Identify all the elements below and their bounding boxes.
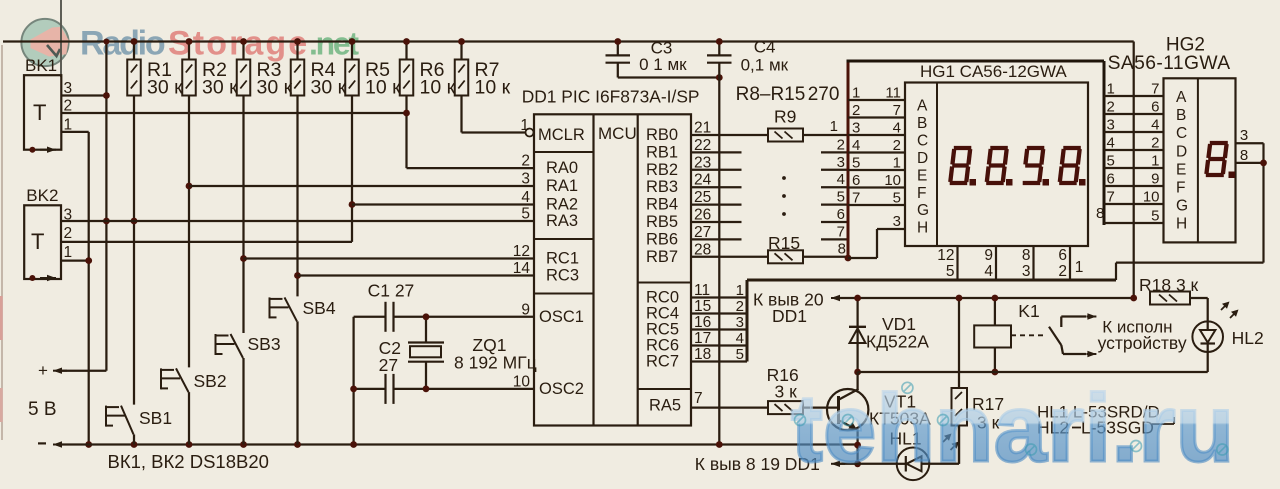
wire OSC1 row [354,316,386,318]
resistor R3 [242,42,244,60]
wire R6 to DQ1 node [405,96,407,169]
HG2 segment wire 1 pin 7 [1104,95,1164,97]
svg-text:MCLR: MCLR [538,126,585,144]
svg-text:OSC1: OSC1 [539,308,584,326]
HG2 segment wire 6 pin 9 [1104,185,1164,187]
svg-text:3: 3 [736,314,744,331]
wire SB4 to ground [296,321,298,444]
svg-text:B: B [1176,107,1186,124]
svg-text:9: 9 [984,247,993,264]
svg-text:0,1 мк: 0,1 мк [741,56,789,75]
wire RC row 5 [691,360,747,362]
wire RB5 stub [691,221,742,223]
wire RC row 1 [691,296,747,298]
wire OSC2 row [354,388,386,390]
svg-text:HG1 CA56-12GWA: HG1 CA56-12GWA [920,62,1067,81]
wire R7 to MCLR [460,96,462,133]
wire RB2 stub [691,169,742,171]
svg-text:1: 1 [736,282,744,299]
svg-text:7: 7 [1107,189,1115,206]
wire HL1 to R17 [958,426,960,464]
svg-text:A: A [917,98,928,115]
relay K1 dashed link [1011,334,1046,336]
svg-text:Radio: Radio [80,25,165,63]
wire collector rail [858,371,1208,373]
HL2 emission arrows [1221,303,1228,310]
svg-text:5: 5 [946,263,955,280]
svg-text:12: 12 [513,243,530,260]
svg-text:RB7: RB7 [646,248,678,266]
svg-text:DD1: DD1 [772,306,807,326]
wire RC3 row [298,274,535,276]
HG1 digit 1 [954,146,972,150]
svg-text:4: 4 [521,189,530,206]
resistor R2 [188,42,190,60]
svg-text:1: 1 [830,118,838,135]
svg-text:2: 2 [736,298,744,315]
wire +5 feeder vertical [105,42,107,371]
wire osc left vertical [352,317,354,445]
svg-text:3: 3 [64,80,73,97]
svg-text:RB5: RB5 [646,213,678,231]
HG2 segment wire 7 pin 10 [1104,203,1164,205]
capacitor C3 [617,42,619,56]
HG1 segment wire 3 pin 4 [848,134,905,136]
svg-text:14: 14 [513,260,531,277]
HG1 segment wire 8 pin 3 jog [848,257,877,259]
wire RB7 [691,256,768,258]
svg-text:8: 8 [1022,247,1031,264]
svg-text:2: 2 [64,225,73,242]
resistor R1 [133,42,135,60]
resistor R18 [1150,292,1190,305]
HG1 digit 4 [1063,146,1081,150]
button SB1 [105,406,107,427]
resistor R4 [296,42,298,60]
wire C3 to C4 bottom [618,76,720,78]
svg-text:RA0: RA0 [546,159,578,177]
HG2 segment wire 8 pin 5 [1104,222,1164,224]
logo horn shape [31,27,69,57]
LED HL1 [897,448,930,481]
svg-text:6: 6 [1058,247,1067,264]
BK2 pin 1 wire [61,259,89,261]
svg-text:30 к: 30 к [202,77,238,99]
svg-text:9: 9 [521,301,530,318]
svg-text:3: 3 [1240,127,1248,144]
svg-text:10: 10 [1143,189,1160,206]
button SB2 [160,368,162,389]
svg-text:2: 2 [521,153,530,170]
svg-text:1: 1 [520,117,529,134]
svg-text:12: 12 [937,247,954,264]
svg-text:4: 4 [736,330,744,347]
LED HL2 [1207,298,1209,321]
svg-text:1: 1 [1075,259,1084,276]
wire RA5 to R16 [691,406,768,408]
resistor R16 [768,401,803,414]
watermark mark 3 [938,415,949,426]
svg-text:1: 1 [893,155,901,172]
svg-text:2: 2 [64,98,73,115]
svg-text:27: 27 [379,355,398,375]
svg-text:RA3: RA3 [546,212,578,230]
button SB4 [269,297,271,318]
svg-text:2: 2 [1107,99,1115,116]
HG1 dp 1 [970,179,977,186]
wire RB3 stub [691,186,742,188]
svg-text:MCU: MCU [598,124,637,143]
HG1 digit 3 [1027,146,1045,150]
svg-text:RC7: RC7 [646,353,679,371]
svg-text:6: 6 [1107,171,1115,188]
wire RC1 row [244,257,535,259]
svg-text:1: 1 [1107,81,1115,98]
svg-text:RA5: RA5 [649,397,681,415]
svg-text:C1 27: C1 27 [368,281,415,301]
svg-text:SB2: SB2 [194,371,227,391]
svg-text:BK2: BK2 [26,186,58,205]
HG1 inner box [905,83,1088,247]
svg-text:8: 8 [1096,205,1104,222]
relay K1 coil [974,325,1011,347]
wire R4 to SB4 [296,96,298,297]
wire R16 to base [803,406,839,408]
svg-text:4: 4 [984,263,993,280]
svg-text:устройству: устройству [1098,333,1187,353]
svg-text:10 к: 10 к [420,77,456,99]
svg-text:B: B [917,115,927,132]
svg-text:6: 6 [1151,99,1159,116]
svg-text:9: 9 [1151,171,1159,188]
svg-text:30 к: 30 к [257,77,293,99]
svg-text:2: 2 [1151,135,1159,152]
svg-text:4: 4 [1107,135,1115,152]
svg-text:1: 1 [64,244,73,261]
ellipsis dots [782,176,786,180]
svg-text:10: 10 [513,373,531,390]
svg-text:RB2: RB2 [646,161,678,179]
svg-text:RB4: RB4 [646,196,678,214]
HG2 dp [1229,172,1236,179]
HG1 common pin 6 wire 2 [1069,246,1071,280]
wire RB0 [691,134,768,136]
svg-text:10 к: 10 к [365,77,401,99]
svg-text:C: C [917,132,928,149]
logo crosshair vertical [60,0,62,77]
svg-text:3: 3 [852,120,860,137]
HG2 digit [1210,141,1228,145]
svg-text:270: 270 [808,84,840,105]
HG1 common pin 12 wire 5 [956,246,958,280]
sensor BK1 [24,75,61,150]
svg-text:R8–R15: R8–R15 [736,84,806,105]
HG1 dp 2 [1006,179,1013,186]
wire SB1 to ground [133,434,135,444]
svg-text:C4: C4 [754,38,776,57]
svg-text:RC3: RC3 [546,267,579,285]
HG1 common pin 8 wire 3 [1032,246,1034,280]
svg-text:D: D [917,150,928,167]
HG1 dp 3 [1043,179,1050,186]
svg-text:2: 2 [893,137,901,154]
HG2 segment wire 3 pin 4 [1104,131,1164,133]
svg-text:5: 5 [736,346,744,363]
watermark mark 0 [795,415,806,426]
svg-text:R9: R9 [774,107,796,127]
svg-text:30 к: 30 к [147,77,183,99]
scan edge artifact left [1,45,3,440]
wire RB1 stub [691,151,742,153]
svg-text:1: 1 [64,117,73,134]
wire R3 to SB3 [242,96,244,334]
resistor R5 [351,42,353,60]
watermark mark 1 [843,415,854,426]
svg-text:BK1: BK1 [25,56,57,75]
HG2 pin 8 wire [1236,162,1264,164]
svg-text:5: 5 [852,155,860,172]
svg-text:2: 2 [1058,263,1067,280]
button SB3 [215,334,217,355]
wire SB2 to ground [188,392,190,444]
wire R5 to RA2 node [351,96,353,242]
wire +5 to R18 vertical [1133,42,1135,299]
svg-text:RB6: RB6 [646,230,678,248]
relay contact [1049,327,1061,345]
logo circle [21,19,68,66]
svg-text:8: 8 [1240,147,1248,164]
svg-text:2: 2 [852,102,860,119]
svg-text:4: 4 [1151,117,1159,134]
svg-text:5: 5 [1107,153,1115,170]
svg-text:4: 4 [852,137,860,154]
svg-text:F: F [1176,180,1185,197]
wire RB4 stub [691,203,742,205]
diode VD1 [856,298,858,372]
svg-text:7: 7 [893,102,901,119]
HG1 segment wire 6 pin 10 [848,186,905,188]
wire BK1.1 to ground vertical [88,132,90,445]
HG2 segment wire 5 pin 1 [1104,167,1164,169]
wire C4 ground vertical [718,63,720,445]
svg-text:10: 10 [884,172,901,189]
svg-text:DD1 PIC I6F873A-I/SP: DD1 PIC I6F873A-I/SP [522,87,700,107]
wire RA2 row [352,203,534,205]
wire R2 to SB2 [188,96,190,368]
wire +5V supply arrow [56,370,106,372]
svg-text:OSC2: OSC2 [539,380,584,398]
svg-text:A: A [1176,89,1187,106]
wire RC row 4 [691,344,747,346]
wire VDD rail [834,297,1134,299]
watermark mark 2 [902,382,913,393]
svg-text:30 к: 30 к [311,77,347,99]
svg-text:SB3: SB3 [248,334,281,354]
BK1 pin 2 wire [61,112,406,114]
svg-text:2: 2 [837,136,845,153]
HG2 segment wire 2 pin 6 [1104,113,1164,115]
svg-text:4: 4 [837,171,845,188]
svg-text:T: T [33,100,46,125]
HG1 digit 2 [990,146,1008,150]
BK1 pin 1 wire [61,131,88,133]
svg-text:3: 3 [893,213,901,230]
crystal ZQ1 [425,317,427,343]
wire RA3 row [61,220,534,222]
resistor R7 [460,42,462,60]
MCU DD1 box [534,114,691,425]
svg-text:E: E [917,167,927,184]
svg-text:1: 1 [1151,153,1159,170]
svg-text:7: 7 [694,390,703,407]
svg-text:RB3: RB3 [646,178,678,196]
svg-text:R18 3 к: R18 3 к [1139,275,1199,295]
svg-text:D: D [1176,143,1187,160]
transistor VT1 [827,389,868,430]
svg-text:K1: K1 [1018,301,1039,321]
BK2 bottom dot-arrow [29,275,35,281]
sensor BK2 [24,205,61,279]
HG2 pin 3 wire [1236,142,1264,144]
watermark mark 6 [1217,444,1228,455]
resistor R15 [768,250,803,263]
svg-text:E: E [1176,161,1186,178]
wire Vss row [834,463,897,465]
wire RA0 row [407,167,535,169]
svg-text:C: C [1176,125,1187,142]
svg-text:SB4: SB4 [303,298,336,318]
svg-text:1: 1 [852,85,860,102]
svg-text:4: 4 [893,120,901,137]
svg-text:8: 8 [838,241,846,258]
resistor R6 [405,42,407,60]
svg-text:10 к: 10 к [475,77,511,99]
HG2 segment wire 4 pin 2 [1104,149,1164,151]
svg-text:RA1: RA1 [546,177,578,195]
svg-text:5: 5 [1151,208,1159,225]
wire +5V top rail [3,40,1134,42]
wire R15 to bus [803,256,848,258]
svg-text:7: 7 [837,223,845,240]
svg-text:5: 5 [521,206,530,223]
svg-text:RA2: RA2 [546,196,578,214]
digit select bus [746,280,749,362]
svg-text:5: 5 [837,189,845,206]
MCLR pin circle [526,129,534,137]
wire BK2.2 row [61,241,352,243]
HG1 common pin 9 wire 4 [995,246,997,280]
svg-text:3: 3 [521,171,530,188]
HG1 outer top edge [847,60,1105,63]
HG1 segment wire 5 pin 1 [848,169,905,171]
BK1 bottom dot-arrow [29,147,35,153]
resistor R17 [958,298,960,388]
svg-text:7: 7 [1151,81,1159,98]
svg-text:RC1: RC1 [546,250,579,268]
HG1 segment wire 1 pin 11 [848,99,905,101]
wire R9 to bus [803,134,848,136]
svg-text:G: G [917,202,929,219]
HG1 outer right edge / HG2 bus [1103,61,1106,225]
wire RB6 stub [691,238,742,240]
svg-text:0 1 мк: 0 1 мк [639,55,687,74]
svg-text:+: + [38,361,48,380]
svg-text:G: G [1176,198,1188,215]
HG1 dp 4 [1079,179,1086,186]
watermark mark 4 [1026,444,1037,455]
HG1 segment bus left [847,61,850,259]
svg-text:F: F [917,185,926,202]
svg-text:6: 6 [837,206,845,223]
capacitor C4 [718,42,720,56]
svg-text:ВК1, ВК2 DS18В20: ВК1, ВК2 DS18В20 [108,451,269,472]
svg-text:T: T [31,229,44,254]
HG1 segment wire 2 pin 7 [848,116,905,118]
svg-text:6: 6 [852,172,860,189]
svg-text:RB1: RB1 [646,143,678,161]
svg-text:8 192 МГц: 8 192 МГц [454,353,537,373]
svg-text:3: 3 [837,154,845,171]
capacitor C2 [384,374,386,404]
resistor R9 [768,129,803,142]
svg-text:КД522А: КД522А [866,332,929,352]
svg-text:H: H [1176,216,1187,233]
HL1 emission arrows [943,435,950,442]
svg-text:SA56-11GWA: SA56-11GWA [1108,53,1231,74]
svg-text:H: H [917,220,928,237]
svg-text:RB0: RB0 [646,126,678,144]
logo check mark [47,45,60,56]
wire RC row 2 [691,312,747,314]
svg-text:5: 5 [893,190,901,207]
svg-text:5 В: 5 В [28,399,57,420]
svg-text:3: 3 [1107,117,1115,134]
svg-text:3: 3 [1022,263,1031,280]
svg-text:tehnari.ru: tehnari.ru [791,376,1234,482]
BK1 pin 3 wire [61,94,106,96]
HG1 segment wire 4 pin 2 [848,151,905,153]
svg-text:SB1: SB1 [139,408,172,428]
HG2 box [1164,78,1236,242]
watermark mark 5 [1131,441,1142,452]
capacitor C1 [384,302,386,332]
svg-text:R15: R15 [768,233,800,253]
wire RC row 3 [691,328,747,330]
HG1 segment wire 7 pin 5 [848,204,905,206]
svg-text:HL2: HL2 [1232,328,1264,348]
wire R1 to SB1 [133,96,135,405]
wire SB3 to ground [242,358,244,445]
wire ground supply arrow [56,443,858,445]
wire RA1 row [189,185,534,187]
svg-text:7: 7 [852,190,860,207]
svg-text:11: 11 [885,85,901,102]
